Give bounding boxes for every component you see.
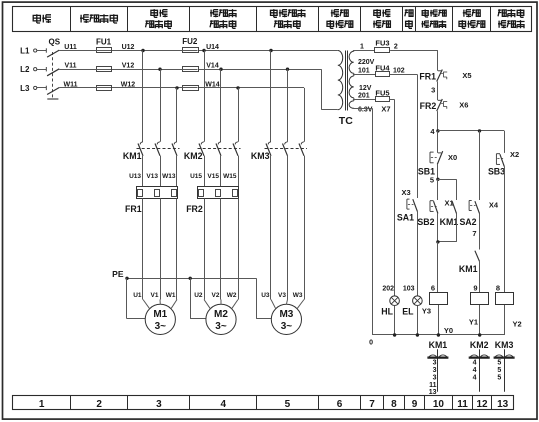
svg-text:4: 4 (430, 127, 435, 136)
svg-text:Y3: Y3 (422, 307, 431, 316)
svg-text:W1: W1 (166, 292, 176, 299)
svg-text:L1: L1 (20, 47, 30, 56)
PE drop to M2 (190, 278, 192, 319)
wire 5-6 below SB2 (437, 214, 439, 242)
svg-text:7: 7 (472, 229, 476, 238)
cooling pump switch SA2 (468, 201, 470, 211)
svg-text:FR2: FR2 (420, 101, 437, 111)
wire 4 drop to SB3 (504, 131, 506, 153)
wire 202 rail to HL (394, 100, 396, 296)
wires KM1 to FR1, labels U13 V13 W13 (142, 156, 144, 187)
svg-text:SB3: SB3 (488, 167, 505, 177)
svg-text:V15: V15 (207, 173, 219, 180)
column header 冷却泵/电动机 (210, 10, 218, 18)
junction node 6 (436, 240, 439, 243)
phase drop wires to KM3 (270, 51, 272, 142)
svg-text:3: 3 (156, 399, 162, 410)
svg-text:3~: 3~ (281, 321, 293, 332)
wires KM3 to motor M3 (270, 156, 272, 300)
wire to node 5 (437, 164, 439, 179)
node 5 (436, 178, 439, 181)
junction dots on bus for KM2 branch (202, 49, 205, 52)
svg-text:V14: V14 (206, 63, 219, 70)
wire 6 to KM1 coil (437, 242, 439, 293)
column header 快速移动/电动机 (271, 9, 278, 17)
svg-text:U13: U13 (129, 173, 141, 180)
svg-text:X7: X7 (381, 105, 390, 114)
svg-text:U1: U1 (133, 292, 142, 299)
wire 201 and fuse FU5, wire 202 (353, 99, 376, 101)
svg-text:220V: 220V (358, 59, 375, 66)
wire 4 drop to SA2 (479, 131, 481, 200)
wire 9 to KM2 coil (479, 261, 481, 292)
column header 照/明 (405, 9, 413, 16)
svg-text:Y0: Y0 (444, 326, 453, 335)
contactor KM3 main contacts (268, 142, 271, 145)
thermal relay FR2 NC contact (438, 99, 441, 101)
svg-text:Y1: Y1 (469, 318, 478, 327)
svg-text:4: 4 (221, 399, 227, 410)
svg-text:102: 102 (393, 68, 405, 75)
svg-text:M2: M2 (214, 309, 228, 320)
svg-text:KM3: KM3 (251, 151, 270, 161)
svg-text:11: 11 (457, 399, 468, 410)
secondary winding 12V (taps 101-201) (349, 76, 354, 98)
svg-text:7: 7 (369, 399, 375, 410)
svg-text:4: 4 (473, 374, 477, 381)
column header 刀架快/速移动 (498, 9, 506, 16)
bottom column-number row (13, 396, 514, 410)
bus line 1 (U phase) (59, 50, 338, 52)
svg-text:V13: V13 (146, 173, 158, 180)
svg-text:12: 12 (476, 399, 488, 410)
svg-text:V12: V12 (122, 63, 135, 70)
svg-text:2: 2 (394, 44, 398, 51)
svg-text:1: 1 (360, 44, 364, 51)
svg-text:KM1: KM1 (123, 151, 142, 161)
contactor KM1 main contacts (140, 142, 143, 145)
svg-text:KM2: KM2 (184, 151, 203, 161)
svg-text:W12: W12 (121, 81, 136, 88)
bus line 3 (W phase) (59, 87, 304, 89)
wire 1 and fuse FU3, wire 2 (353, 50, 375, 52)
svg-text:V1: V1 (151, 292, 159, 299)
svg-text:5: 5 (285, 399, 291, 410)
svg-text:12V: 12V (359, 85, 372, 92)
svg-text:EL: EL (402, 306, 414, 316)
column header 电源 (33, 14, 40, 23)
svg-text:3~: 3~ (215, 321, 227, 332)
svg-text:M1: M1 (153, 309, 167, 320)
self-hold branch return wire (456, 214, 458, 242)
phase drop wires to KM2 (204, 51, 206, 142)
thermal relay FR1 heater element (137, 187, 178, 199)
indicator lamp HL (390, 296, 400, 306)
svg-text:6: 6 (337, 399, 343, 410)
motor M1 (145, 304, 175, 334)
wire 0 below KM1 coil (438, 305, 440, 335)
PE drop to M3 (256, 278, 258, 319)
svg-text:5: 5 (430, 176, 434, 185)
contactor coil KM2 (471, 293, 489, 305)
control transformer TC primary winding (338, 51, 343, 110)
svg-text:U3: U3 (261, 292, 270, 299)
svg-text:FU2: FU2 (182, 37, 198, 46)
column header 控制/变压器 (331, 10, 339, 18)
svg-text:FU1: FU1 (96, 38, 112, 47)
svg-text:3: 3 (433, 374, 437, 381)
svg-text:101: 101 (358, 68, 370, 75)
primary bottom lead to V phase (322, 109, 338, 111)
svg-text:KM1: KM1 (459, 264, 478, 274)
phase drop wires to KM1 (142, 51, 144, 142)
column header 电源/指示 (374, 9, 381, 17)
svg-text:TC: TC (339, 115, 353, 127)
column header 冷却/泵控制 (463, 10, 471, 18)
svg-text:8: 8 (391, 399, 397, 410)
svg-text:202: 202 (382, 286, 394, 293)
svg-text:9: 9 (473, 284, 477, 293)
column header 主轴/电动机 (151, 9, 158, 17)
svg-text:SA1: SA1 (397, 213, 414, 223)
column header 短路保护 (80, 15, 89, 23)
thermal relay FR1 NC contact (438, 70, 441, 72)
svg-text:SA2: SA2 (459, 217, 476, 227)
svg-text:W15: W15 (223, 173, 237, 180)
svg-text:U15: U15 (190, 173, 202, 180)
svg-text:FR2: FR2 (186, 204, 203, 214)
svg-text:U11: U11 (64, 44, 77, 51)
contactor coil KM1 (430, 293, 448, 305)
junction dots on bus for KM1 branch (141, 49, 144, 52)
motor M2 (206, 304, 236, 334)
svg-text:FR1: FR1 (419, 72, 436, 82)
svg-text:U12: U12 (122, 44, 135, 51)
svg-text:5: 5 (497, 360, 501, 367)
svg-text:9: 9 (412, 399, 418, 410)
svg-text:U14: U14 (206, 44, 219, 51)
transformer core (345, 51, 347, 111)
svg-text:8: 8 (496, 284, 500, 293)
svg-text:1: 1 (39, 399, 45, 410)
svg-text:5: 5 (497, 367, 501, 374)
secondary winding 6.3V (tap 201-bottom) (349, 101, 354, 108)
svg-text:4: 4 (473, 360, 477, 367)
contactor KM2 main contacts (201, 142, 204, 145)
wire 0 bottom rail (372, 334, 504, 336)
svg-text:3~: 3~ (155, 321, 167, 332)
wire 3 (437, 82, 439, 101)
node-5 branch to KM1 self-hold contact (438, 179, 457, 181)
secondary winding 220V (taps 1-101) (349, 51, 354, 73)
column header 主轴电/机控制 (422, 9, 428, 17)
svg-text:KM1: KM1 (429, 340, 448, 350)
svg-text:10: 10 (433, 399, 445, 410)
rapid-move button SB3 (NO) (495, 154, 497, 165)
svg-text:U2: U2 (194, 292, 203, 299)
svg-text:QS: QS (49, 38, 61, 47)
KM1 interlock contact (NO) (475, 251, 480, 262)
svg-text:13: 13 (429, 389, 437, 396)
wire 2 drop (437, 51, 439, 71)
6.3V return rail (372, 108, 374, 335)
motor M3 (271, 304, 301, 334)
svg-text:X6: X6 (459, 101, 468, 110)
svg-text:X2: X2 (510, 150, 519, 159)
svg-text:KM2: KM2 (470, 340, 489, 350)
wire 101 and fuse FU4, wire 102 (353, 74, 376, 76)
svg-text:4: 4 (473, 367, 477, 374)
svg-text:103: 103 (403, 286, 415, 293)
svg-text:SB2: SB2 (417, 217, 434, 227)
terminal L1 (34, 49, 37, 52)
svg-text:11: 11 (429, 382, 437, 389)
svg-text:PE: PE (112, 269, 124, 279)
node-4 branch wire to SA2 and SB3 columns (438, 130, 504, 132)
svg-text:V11: V11 (64, 63, 76, 70)
wire to node 4 (437, 111, 439, 131)
svg-text:X4: X4 (489, 201, 499, 210)
terminal L2 (34, 68, 37, 71)
node 4 (436, 129, 439, 132)
svg-text:FU3: FU3 (375, 39, 389, 48)
KM1 self-hold auxiliary contact (452, 201, 456, 213)
svg-text:V3: V3 (278, 292, 286, 299)
svg-text:6.3V: 6.3V (358, 106, 373, 113)
svg-text:5: 5 (497, 374, 501, 381)
svg-text:W2: W2 (227, 292, 237, 299)
svg-text:2: 2 (96, 399, 102, 410)
bus line 2 (V phase) (59, 69, 321, 71)
wire 103 to lamp EL (417, 212, 419, 296)
svg-text:Y2: Y2 (513, 320, 522, 329)
wires KM2 to FR2, labels U15 V15 W15 (204, 156, 206, 187)
wire below KM3 coil (504, 305, 506, 335)
wires FR2 to motor M2 (204, 199, 206, 300)
wires FR1 to motor M1 (142, 199, 144, 300)
start button SB2 (NO) (437, 179, 439, 200)
terminal L3 (34, 86, 37, 89)
svg-text:6: 6 (431, 284, 435, 293)
wire 7 (479, 214, 481, 250)
svg-text:13: 13 (497, 399, 509, 410)
wire 8 to KM3 coil (504, 167, 506, 293)
svg-text:W14: W14 (205, 81, 220, 88)
svg-text:201: 201 (358, 93, 370, 100)
svg-text:KM3: KM3 (495, 340, 514, 350)
svg-text:V2: V2 (212, 292, 220, 299)
PE drop to M1 (126, 278, 128, 319)
svg-text:L3: L3 (20, 84, 30, 93)
svg-text:3: 3 (433, 360, 437, 367)
svg-text:X0: X0 (448, 153, 457, 162)
svg-text:KM1: KM1 (440, 217, 459, 227)
svg-text:0: 0 (369, 340, 373, 347)
contactor coil KM3 (496, 293, 514, 305)
svg-text:M3: M3 (279, 309, 293, 320)
junction dots on bus for KM3 branch (269, 49, 272, 52)
svg-text:3: 3 (433, 367, 437, 374)
svg-text:W13: W13 (162, 173, 176, 180)
wire 102 rail to SA1 (417, 75, 419, 199)
thermal relay FR2 heater element (198, 187, 239, 199)
wire below KM2 coil (479, 305, 481, 335)
lighting lamp EL (413, 296, 423, 306)
stop button SB1 (NC) (429, 152, 431, 163)
svg-text:3: 3 (431, 86, 435, 95)
header row (13, 7, 532, 32)
svg-text:FR1: FR1 (125, 204, 142, 214)
svg-text:W3: W3 (293, 292, 303, 299)
svg-text:X3: X3 (402, 188, 411, 197)
svg-text:L2: L2 (20, 65, 30, 74)
wire X7 (6.3V output) (352, 108, 372, 110)
svg-text:X5: X5 (462, 71, 471, 80)
svg-text:HL: HL (381, 306, 393, 316)
